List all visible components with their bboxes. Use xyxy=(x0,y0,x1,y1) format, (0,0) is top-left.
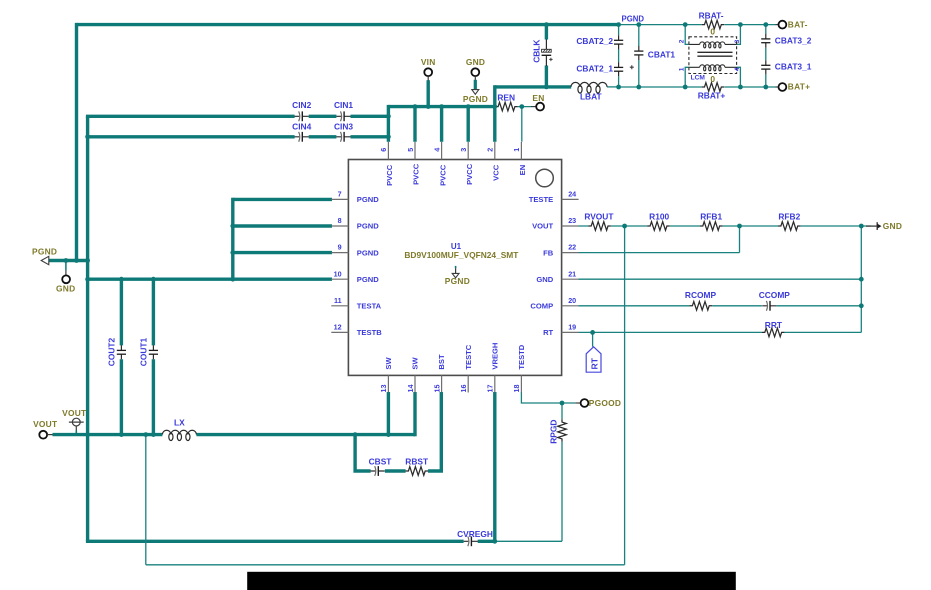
node PGND row junctions xyxy=(74,258,79,263)
chip pin stubs right xyxy=(562,199,579,332)
pin name PGND 10 xyxy=(357,275,379,284)
wire pin4 drop xyxy=(440,107,443,142)
pin name FB xyxy=(543,248,554,257)
svg-text:PGND: PGND xyxy=(445,276,470,286)
LCM core lines xyxy=(697,52,732,56)
svg-text:PGND: PGND xyxy=(357,275,379,284)
resistor RBST xyxy=(405,457,429,476)
wire RPGD top to PGOOD row xyxy=(561,403,563,419)
wire VOUT rail xyxy=(53,433,416,436)
svg-text:VOUT: VOUT xyxy=(532,222,553,231)
svg-text:LBAT: LBAT xyxy=(580,92,603,102)
wire pin2 vertical xyxy=(493,85,496,142)
svg-text:PVCC: PVCC xyxy=(465,163,474,185)
wire pin13 drop xyxy=(387,392,390,435)
wire LCM left pins xyxy=(685,25,689,87)
chip pin stubs top xyxy=(388,142,521,160)
LCM pin numbers xyxy=(678,39,741,71)
wire VCC branch horizontal xyxy=(495,85,571,88)
wire FB pin22 row xyxy=(579,226,740,253)
common-mode choke LCM dashed box xyxy=(689,37,737,74)
capacitor CBAT3_2 xyxy=(761,34,812,48)
svg-text:BAT-: BAT- xyxy=(788,19,808,29)
svg-text:11: 11 xyxy=(334,296,342,305)
pin numbers right 24 23 22 21 20 19 xyxy=(568,190,576,332)
svg-text:VREGH: VREGH xyxy=(490,343,499,370)
svg-text:EN: EN xyxy=(532,93,544,103)
resistor RVOUT xyxy=(584,212,614,231)
wire EN net xyxy=(518,107,531,142)
resistor RFB1 xyxy=(700,212,723,231)
svg-text:CBLK: CBLK xyxy=(532,40,542,63)
svg-text:LX: LX xyxy=(174,418,185,428)
wire right GND vertical xyxy=(860,226,862,332)
capacitor COUT2 xyxy=(107,337,126,366)
pin name VOUT xyxy=(532,222,553,231)
chip U1 body xyxy=(348,160,561,376)
svg-text:24: 24 xyxy=(568,190,576,199)
svg-text:GND: GND xyxy=(56,283,75,293)
svg-text:VOUT: VOUT xyxy=(62,408,87,418)
pin names bottom SW SW BST TESTC VREGH TESTD xyxy=(384,343,526,370)
svg-text:RPGD: RPGD xyxy=(548,420,558,444)
svg-text:CBAT2_2: CBAT2_2 xyxy=(576,36,613,46)
svg-text:BAT+: BAT+ xyxy=(788,82,810,92)
svg-text:PGND: PGND xyxy=(32,247,57,257)
svg-text:2: 2 xyxy=(678,39,685,43)
svg-text:4: 4 xyxy=(432,148,441,152)
connector VIN xyxy=(421,57,436,80)
wire COUT1 vertical xyxy=(152,279,155,434)
resistor RRT xyxy=(762,320,785,337)
node VCC branch junction xyxy=(544,85,549,90)
chip value BD9V100MUF_VQFN24_SMT xyxy=(404,250,519,260)
wire RT pin19 row xyxy=(579,331,862,333)
inductor LBAT xyxy=(571,82,607,93)
svg-text:RBAT+: RBAT+ xyxy=(698,90,726,100)
chip pin1 indicator circle xyxy=(536,169,554,187)
connector GND left xyxy=(56,270,75,293)
svg-text:TESTA: TESTA xyxy=(357,302,382,311)
wire second left vertical (CIN return) xyxy=(86,116,89,541)
svg-text:PGOOD: PGOOD xyxy=(589,398,621,408)
node CIN row junctions xyxy=(386,114,391,119)
svg-text:GND: GND xyxy=(536,275,553,284)
svg-text:COUT1: COUT1 xyxy=(139,337,149,366)
svg-text:FB: FB xyxy=(543,248,554,257)
svg-text:CVREGH: CVREGH xyxy=(457,529,493,539)
svg-text:12: 12 xyxy=(334,323,342,332)
capacitor CBLK (polarized) xyxy=(542,39,553,66)
wire LBAT right to battery rails (thin) xyxy=(607,86,619,88)
wire CBAT1 stack xyxy=(638,25,640,87)
wire left vertical from top rail xyxy=(75,23,78,261)
wire pgnd pins vertical xyxy=(231,198,234,280)
wire VOUT sense vertical right xyxy=(624,226,626,565)
wire pin3 drop xyxy=(467,107,470,142)
svg-text:3: 3 xyxy=(734,39,741,43)
svg-text:1: 1 xyxy=(512,148,521,152)
svg-text:CBAT1: CBAT1 xyxy=(648,50,676,60)
global label GND right xyxy=(866,221,902,231)
capacitor CBST xyxy=(369,457,393,476)
resistor R100 xyxy=(647,212,670,231)
global label PGND left xyxy=(32,247,57,265)
wire CIN1 row xyxy=(86,115,389,118)
wire CIN3 row xyxy=(88,135,389,138)
wire GND pin21 row xyxy=(579,278,862,280)
svg-text:16: 16 xyxy=(459,385,468,393)
capacitor CBAT2_1 (+) xyxy=(576,62,633,76)
svg-text:CIN2: CIN2 xyxy=(292,100,311,110)
pin name PGND 7 xyxy=(357,195,379,204)
svg-text:RT: RT xyxy=(543,328,553,337)
svg-text:TESTC: TESTC xyxy=(464,344,473,369)
svg-text:PVCC: PVCC xyxy=(438,164,447,186)
node PGND pins vertical junctions xyxy=(230,224,235,229)
svg-text:GND: GND xyxy=(883,221,902,231)
power symbol VOUT testpoint xyxy=(62,408,87,435)
node top rail junctions xyxy=(544,22,549,27)
svg-text:PGND: PGND xyxy=(357,222,379,231)
pin numbers bottom 13 14 15 16 17 18 xyxy=(379,385,521,393)
svg-text:CBST: CBST xyxy=(369,457,393,467)
capacitor CIN4 xyxy=(292,121,311,141)
connector EN xyxy=(531,93,545,110)
svg-text:PGND: PGND xyxy=(357,248,379,257)
svg-text:3: 3 xyxy=(459,148,468,152)
svg-text:CCOMP: CCOMP xyxy=(759,290,791,300)
svg-text:PVCC: PVCC xyxy=(385,164,394,186)
svg-text:0: 0 xyxy=(710,74,715,84)
LCM top winding xyxy=(689,42,737,48)
svg-text:REN: REN xyxy=(497,93,515,103)
svg-text:RFB1: RFB1 xyxy=(700,212,722,222)
wire VOUT sense bottom horizontal xyxy=(146,564,625,566)
svg-text:6: 6 xyxy=(379,148,388,152)
hierarchical label RT xyxy=(586,347,601,372)
svg-text:TESTB: TESTB xyxy=(357,328,382,337)
chip pin stubs bottom xyxy=(388,375,521,392)
svg-text:21: 21 xyxy=(568,269,576,278)
wire GND terminal stub xyxy=(65,261,67,271)
connector GND top xyxy=(466,57,485,80)
capacitor CIN2 xyxy=(292,100,311,121)
wire PGND row left xyxy=(49,259,90,262)
node PGOOD junction xyxy=(560,401,565,406)
svg-text:COUT2: COUT2 xyxy=(107,337,117,366)
svg-text:RT: RT xyxy=(590,357,600,369)
pin name GND xyxy=(536,275,553,284)
capacitor CBAT3_1 xyxy=(761,60,812,74)
pin name TESTE xyxy=(529,195,553,204)
svg-text:RRT: RRT xyxy=(765,320,783,330)
resistor RFB2 xyxy=(778,212,801,231)
svg-text:0: 0 xyxy=(710,27,715,37)
svg-text:18: 18 xyxy=(512,385,521,393)
svg-text:9: 9 xyxy=(338,243,342,252)
chip reference U1 xyxy=(451,242,462,251)
svg-text:1: 1 xyxy=(678,67,685,71)
wire pin6 drop xyxy=(387,105,390,142)
svg-text:BST: BST xyxy=(437,354,446,370)
svg-text:COMP: COMP xyxy=(530,302,553,311)
inductor LX xyxy=(162,430,196,440)
wire CBLK bottom stub xyxy=(545,66,548,87)
wire COMP pin20 row xyxy=(579,305,862,307)
wire top PGND rail (thick) xyxy=(77,23,619,26)
svg-text:RVOUT: RVOUT xyxy=(584,212,614,222)
svg-text:15: 15 xyxy=(432,385,441,393)
capacitor COUT1 xyxy=(139,337,158,366)
svg-text:PGND: PGND xyxy=(463,94,488,104)
label LBAT xyxy=(580,92,603,102)
svg-text:13: 13 xyxy=(379,385,388,393)
svg-text:VOUT: VOUT xyxy=(33,419,58,429)
svg-text:PVCC: PVCC xyxy=(412,163,421,185)
wire PVCC rail xyxy=(388,105,494,108)
wire LCM right pins xyxy=(737,25,741,87)
svg-text:GND: GND xyxy=(466,57,485,67)
svg-text:20: 20 xyxy=(568,296,576,305)
svg-text:19: 19 xyxy=(568,323,576,332)
svg-text:17: 17 xyxy=(486,385,495,393)
svg-text:10: 10 xyxy=(334,269,342,278)
svg-text:22: 22 xyxy=(568,243,576,252)
svg-text:CBAT2_1: CBAT2_1 xyxy=(576,63,613,73)
connector BAT+ xyxy=(776,82,811,92)
svg-text:EN: EN xyxy=(518,165,527,176)
svg-text:23: 23 xyxy=(568,216,576,225)
wire CBAT2 stack xyxy=(618,25,620,87)
svg-text:CBAT3_2: CBAT3_2 xyxy=(775,35,812,45)
svg-text:VCC: VCC xyxy=(492,164,501,181)
svg-text:LCM: LCM xyxy=(691,74,706,81)
resistor RPGD (vertical) xyxy=(548,419,566,444)
svg-text:RBAT-: RBAT- xyxy=(699,10,724,20)
resistor RCOMP xyxy=(685,290,717,310)
wire RT label stem xyxy=(592,332,594,346)
pin name TESTA xyxy=(357,302,382,311)
svg-text:RCOMP: RCOMP xyxy=(685,290,717,300)
svg-text:2: 2 xyxy=(486,148,495,152)
pin numbers left 7 8 9 10 11 12 xyxy=(334,190,342,332)
svg-text:SW: SW xyxy=(411,357,420,370)
net label PGND top xyxy=(622,14,645,23)
svg-text:CIN4: CIN4 xyxy=(292,121,311,131)
wire CBAT3 stack xyxy=(765,25,767,87)
pin name PGND 9 xyxy=(357,248,379,257)
svg-text:CIN3: CIN3 xyxy=(334,121,353,131)
redacted caption bar xyxy=(247,572,736,590)
label CBLK xyxy=(532,40,542,63)
svg-text:BD9V100MUF_VQFN24_SMT: BD9V100MUF_VQFN24_SMT xyxy=(404,250,519,260)
svg-text:PGND: PGND xyxy=(622,14,645,23)
resistor REN xyxy=(495,93,518,111)
LCM bottom winding xyxy=(689,65,737,71)
resistor RBAT+ with value 0 xyxy=(698,74,726,100)
svg-text:7: 7 xyxy=(338,190,342,199)
capacitor CVREGH xyxy=(457,529,493,546)
node battery bottom rail junctions xyxy=(616,85,621,90)
svg-text:VIN: VIN xyxy=(421,57,436,67)
wire VOUT sense vertical left xyxy=(145,435,147,565)
wire pin9 row xyxy=(233,251,332,254)
capacitor CBAT2_2 xyxy=(576,35,623,49)
node CVREGH junction xyxy=(492,539,497,544)
chip pin stubs left xyxy=(331,199,348,332)
wire pin8 row xyxy=(233,224,332,227)
wire pin17 vertical xyxy=(493,392,496,541)
pin name TESTB xyxy=(357,328,382,337)
power symbol PGND below GND xyxy=(463,80,488,104)
svg-text:R100: R100 xyxy=(649,212,669,222)
svg-text:TESTD: TESTD xyxy=(517,344,526,369)
wire pin18 PGOOD net xyxy=(521,392,575,403)
wire pin10 row xyxy=(88,278,332,281)
resistor RBAT- with value 0 xyxy=(699,10,725,36)
power symbol PGND chip center xyxy=(445,266,470,286)
pin numbers top 6 5 4 3 2 1 xyxy=(379,148,521,152)
connector PGOOD xyxy=(575,398,621,408)
wire CBST branch xyxy=(355,392,441,473)
connector BAT- xyxy=(776,19,808,29)
wire VIN drop xyxy=(427,80,430,106)
wire battery top rail thin xyxy=(619,24,776,26)
svg-text:PGND: PGND xyxy=(357,195,379,204)
node pin10 row junctions xyxy=(85,277,90,282)
label LX xyxy=(174,418,185,428)
svg-text:RFB2: RFB2 xyxy=(778,212,800,222)
wire COUT2 vertical xyxy=(120,279,123,434)
svg-text:CIN1: CIN1 xyxy=(334,100,353,110)
wire CVREGH row xyxy=(86,540,495,543)
node VOUT rail junctions xyxy=(119,432,124,437)
wire pin7 row xyxy=(233,198,332,201)
capacitor CCOMP xyxy=(759,290,791,311)
svg-text:14: 14 xyxy=(406,385,415,393)
wire pin5 drop xyxy=(413,107,416,142)
pin name PGND 8 xyxy=(357,222,379,231)
capacitor CBAT1 xyxy=(634,46,675,60)
node VOUT sense junctions xyxy=(622,224,627,229)
pin name RT xyxy=(543,328,553,337)
svg-text:RBST: RBST xyxy=(405,457,429,467)
pin name COMP xyxy=(530,302,553,311)
svg-text:4: 4 xyxy=(734,67,741,71)
svg-text:8: 8 xyxy=(338,216,342,225)
svg-text:TESTE: TESTE xyxy=(529,195,553,204)
wire pin14 drop xyxy=(413,392,416,436)
svg-text:CBAT3_1: CBAT3_1 xyxy=(775,62,812,72)
capacitor CIN3 xyxy=(334,121,353,141)
node PVCC rail junctions xyxy=(413,104,418,109)
wire battery bottom rail thin xyxy=(619,86,776,88)
wire VOUT pin23 row xyxy=(579,225,872,227)
svg-text:SW: SW xyxy=(384,357,393,370)
node RT junction xyxy=(590,330,595,335)
label LCM xyxy=(691,74,706,81)
wire CVREGH to RPGD thin xyxy=(495,442,562,542)
capacitor CIN1 xyxy=(334,100,353,121)
pin names top PVCC PVCC PVCC PVCC VCC EN xyxy=(385,163,527,186)
connector VOUT xyxy=(33,419,58,439)
wire CBLK top stub xyxy=(545,25,548,40)
svg-text:5: 5 xyxy=(406,148,415,152)
